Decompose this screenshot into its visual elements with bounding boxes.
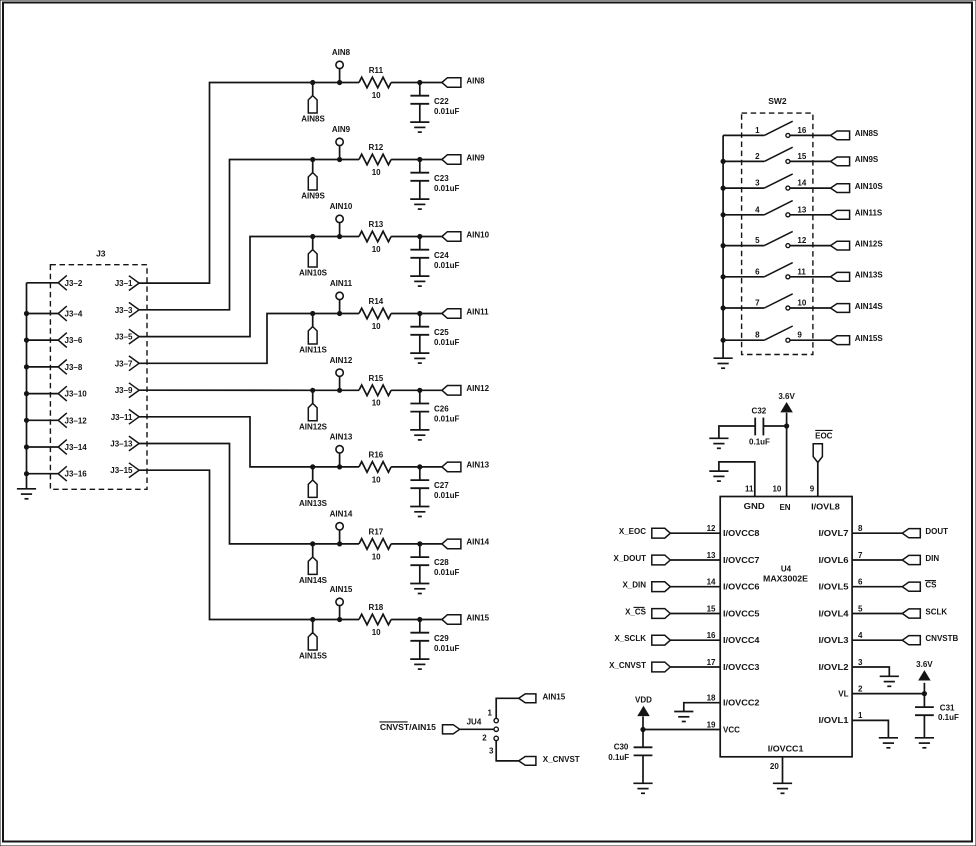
junction (418, 311, 422, 315)
svg-text:VCC: VCC (723, 725, 740, 734)
test point AIN14 (330, 510, 353, 544)
port AIN13 (442, 461, 490, 472)
wire (340, 236, 359, 238)
port AIN11 (442, 307, 489, 318)
svg-text:19: 19 (707, 720, 716, 729)
J3 pin J3-4 (27, 306, 83, 321)
svg-text:J3–3: J3–3 (115, 306, 133, 315)
svg-text:16: 16 (707, 631, 716, 640)
capacitor C31 (915, 694, 959, 738)
junction (24, 418, 28, 422)
svg-text:2: 2 (858, 684, 863, 693)
junction (311, 617, 315, 621)
port SCLK (902, 607, 947, 618)
svg-text:10: 10 (372, 91, 381, 100)
svg-text:0.1uF: 0.1uF (749, 437, 770, 446)
wire (313, 389, 340, 391)
svg-text:VDD: VDD (635, 696, 652, 705)
wire (340, 466, 359, 468)
wire (391, 313, 442, 315)
svg-text:I/OVCC3: I/OVCC3 (723, 663, 760, 672)
U4 pin 3 I/OVL2 (819, 658, 864, 672)
J3 ground bus wire (26, 283, 28, 489)
U4 pin 5 I/OVL4 (819, 604, 864, 618)
svg-text:AIN11S: AIN11S (299, 346, 327, 355)
wire (391, 236, 442, 238)
ground (410, 584, 429, 594)
junction (721, 338, 725, 342)
junction (24, 338, 28, 342)
wire (670, 559, 720, 561)
wire (670, 532, 720, 534)
junction (338, 542, 342, 546)
svg-text:I/OVCC4: I/OVCC4 (723, 636, 760, 645)
wire (670, 666, 720, 668)
J3 pin J3-10 (27, 386, 88, 401)
J3 pin J3-1 (115, 276, 139, 291)
svg-text:AIN10: AIN10 (330, 202, 353, 211)
J3 pin J3-12 (27, 413, 88, 428)
ground (410, 353, 429, 363)
wire (313, 619, 340, 621)
svg-text:10: 10 (372, 322, 381, 331)
resistor R18 (359, 603, 391, 637)
jumper JU4 (467, 709, 499, 756)
svg-text:X_EOC: X_EOC (619, 527, 646, 536)
svg-text:0.01uF: 0.01uF (434, 415, 459, 424)
U4 pin 19 VCC (707, 720, 741, 734)
wire (391, 82, 442, 84)
svg-text:10: 10 (372, 552, 381, 561)
ground (410, 122, 429, 132)
switch SW2 position 3-14 (723, 174, 807, 190)
svg-text:R14: R14 (369, 297, 384, 306)
svg-text:R12: R12 (369, 143, 384, 152)
svg-text:CNVSTB: CNVSTB (925, 634, 958, 643)
U4 pin 20 I/OVCC1 (768, 745, 804, 784)
wire pin3 to ground (852, 667, 889, 676)
port AIN15 (442, 613, 490, 624)
wire (340, 82, 359, 84)
junction (338, 465, 342, 469)
capacitor C28 (410, 544, 459, 584)
svg-text:3: 3 (858, 658, 863, 667)
svg-text:10: 10 (772, 485, 781, 494)
port AIN8S (831, 129, 879, 140)
svg-text:10: 10 (372, 168, 381, 177)
U4 pin 7 I/OVL6 (819, 551, 864, 565)
ground (879, 738, 898, 748)
svg-text:0.01uF: 0.01uF (434, 338, 459, 347)
SW2 bus wire (722, 135, 724, 358)
svg-text:J3–14: J3–14 (65, 443, 88, 452)
wire J3 to AIN8 stage (139, 83, 313, 284)
svg-text:10: 10 (372, 475, 381, 484)
port AIN15 (519, 692, 566, 702)
svg-text:AIN14S: AIN14S (855, 302, 884, 311)
svg-text:AIN14: AIN14 (330, 510, 353, 519)
wire (790, 339, 831, 341)
J3 pin J3-16 (27, 466, 88, 481)
svg-text:13: 13 (797, 205, 806, 214)
ground (410, 659, 429, 669)
svg-text:SCLK: SCLK (925, 607, 947, 616)
test point AIN9 (332, 125, 351, 159)
wire (790, 214, 831, 216)
junction (24, 392, 28, 396)
svg-text:AIN9: AIN9 (466, 153, 485, 162)
svg-text:5: 5 (858, 604, 863, 613)
svg-text:J3–5: J3–5 (115, 333, 133, 342)
svg-text:AIN9: AIN9 (332, 125, 351, 134)
svg-text:14: 14 (797, 179, 806, 188)
port AIN11S (831, 209, 883, 220)
svg-text:AIN8: AIN8 (466, 76, 485, 85)
U4 pin 12 I/OVCC8 (707, 524, 761, 538)
svg-text:C22: C22 (434, 97, 449, 106)
resistor R12 (359, 143, 391, 177)
svg-text:I/OVL8: I/OVL8 (811, 503, 840, 512)
junction (311, 234, 315, 238)
wire (852, 613, 902, 615)
wire (313, 236, 340, 238)
svg-text:12: 12 (797, 236, 806, 245)
junction (24, 472, 28, 476)
svg-text:AIN15S: AIN15S (299, 652, 328, 661)
svg-text:AIN12S: AIN12S (855, 239, 884, 248)
svg-text:J3–10: J3–10 (65, 390, 88, 399)
svg-text:AIN8: AIN8 (332, 48, 351, 57)
svg-text:GND: GND (744, 502, 765, 511)
svg-text:9: 9 (810, 485, 815, 494)
svg-text:AIN14S: AIN14S (299, 576, 328, 585)
svg-text:MAX3002E: MAX3002E (763, 575, 809, 584)
capacitor C24 (410, 237, 459, 277)
svg-text:3: 3 (755, 179, 760, 188)
svg-text:AIN15S: AIN15S (855, 334, 884, 343)
junction (418, 80, 422, 84)
svg-text:AIN9S: AIN9S (301, 192, 325, 201)
junction (338, 80, 342, 84)
svg-text:I/OVCC5: I/OVCC5 (723, 609, 760, 618)
svg-text:13: 13 (707, 551, 716, 560)
port AIN10 (442, 230, 490, 241)
svg-text:I/OVCC6: I/OVCC6 (723, 583, 760, 592)
port CNVST/AIN15 (379, 722, 459, 734)
wire (391, 159, 442, 161)
switch SW2 position 6-11 (723, 263, 806, 279)
wire (313, 543, 340, 545)
junction (311, 388, 315, 392)
port AIN8 (442, 76, 485, 87)
svg-text:J3–1: J3–1 (115, 279, 133, 288)
svg-text:I/OVL4: I/OVL4 (819, 609, 850, 618)
svg-text:C27: C27 (434, 481, 449, 490)
svg-text:10: 10 (372, 628, 381, 637)
J3 pin J3-3 (115, 302, 139, 317)
resistor R14 (359, 297, 391, 331)
wire (313, 313, 340, 315)
switch SW2 position 7-10 (723, 294, 807, 310)
resistor R13 (359, 220, 391, 254)
ground (709, 471, 728, 481)
svg-text:R15: R15 (369, 374, 384, 383)
port AIN15S (831, 334, 884, 345)
junction (338, 388, 342, 392)
junction (641, 727, 645, 731)
wire (340, 389, 359, 391)
junction (418, 388, 422, 392)
junction (721, 306, 725, 310)
net flag AIN10S (299, 237, 328, 278)
svg-text:1: 1 (488, 709, 493, 718)
power VDD (635, 696, 652, 730)
svg-text:I/OVL5: I/OVL5 (819, 583, 850, 592)
svg-text:J3–2: J3–2 (65, 279, 83, 288)
svg-text:12: 12 (707, 524, 716, 533)
port AIN14S (831, 302, 884, 313)
svg-text:14: 14 (707, 578, 716, 587)
junction (24, 365, 28, 369)
svg-text:R11: R11 (369, 66, 384, 75)
switch SW2 position 2-15 (723, 147, 807, 163)
port X_EOC (619, 527, 670, 538)
svg-text:8: 8 (755, 331, 760, 340)
svg-text:J3–11: J3–11 (111, 413, 133, 422)
capacitor C32 (719, 407, 787, 447)
svg-text:X_CS: X_CS (625, 607, 647, 616)
svg-text:C25: C25 (434, 328, 449, 337)
U4 pin 10 EN (772, 413, 790, 512)
ground (410, 276, 429, 286)
net flag AIN15S (299, 620, 328, 661)
port CNVSTB (902, 634, 958, 645)
svg-text:4: 4 (858, 631, 863, 640)
svg-text:I/OVL3: I/OVL3 (819, 636, 850, 645)
J3 pin J3-8 (27, 360, 83, 375)
svg-text:10: 10 (797, 299, 806, 308)
net flag AIN13S (299, 467, 328, 508)
wire JU4 pin1 to AIN15 (496, 698, 519, 718)
svg-text:9: 9 (797, 331, 802, 340)
switch SW2 position 8-9 (723, 326, 802, 342)
wire J3 to AIN11 stage (139, 314, 313, 364)
svg-text:AIN14: AIN14 (466, 538, 489, 547)
junction (418, 157, 422, 161)
resistor R17 (359, 527, 391, 561)
svg-text:I/OVL2: I/OVL2 (819, 663, 850, 672)
ground (773, 783, 792, 793)
wire JU4 pin3 to X_CNVST (496, 741, 519, 761)
svg-text:3: 3 (489, 746, 494, 755)
junction (311, 311, 315, 315)
power 3.6V (778, 392, 795, 412)
capacitor C22 (410, 83, 459, 123)
port AIN14 (442, 538, 490, 549)
capacitor C29 (410, 620, 459, 660)
svg-text:C30: C30 (614, 743, 629, 752)
svg-text:I/OVL6: I/OVL6 (819, 556, 850, 565)
svg-text:R18: R18 (369, 603, 384, 612)
U4 pin 11 GND (719, 462, 765, 511)
ground (410, 199, 429, 209)
wire (790, 276, 831, 278)
junction (24, 445, 28, 449)
svg-text:0.01uF: 0.01uF (434, 568, 459, 577)
wire (313, 159, 340, 161)
svg-text:AIN15: AIN15 (466, 613, 489, 622)
capacitor C23 (410, 160, 459, 200)
wire (340, 159, 359, 161)
net flag EOC (813, 430, 832, 462)
svg-text:3.6V: 3.6V (778, 392, 795, 401)
wire J3 to AIN15 stage (139, 470, 313, 619)
svg-text:CNVST/AIN15: CNVST/AIN15 (380, 723, 437, 732)
svg-text:AIN10S: AIN10S (855, 182, 884, 191)
wire (670, 613, 720, 615)
U4 pin 2 VL (838, 684, 863, 698)
switch SW2 position 5-12 (723, 231, 807, 247)
wire pin2 VL (852, 693, 924, 695)
U4 pin 14 I/OVCC6 (707, 578, 761, 592)
svg-text:J3–4: J3–4 (65, 310, 83, 319)
svg-text:AIN15: AIN15 (330, 585, 353, 594)
power 3.6V (916, 660, 933, 694)
U4 pin 13 I/OVCC7 (707, 551, 761, 565)
svg-text:11: 11 (797, 267, 806, 276)
junction (311, 542, 315, 546)
wire pin19 VCC (643, 729, 720, 731)
svg-text:10: 10 (372, 399, 381, 408)
port X_CNVST (609, 661, 670, 672)
U4 pin 15 I/OVCC5 (707, 604, 761, 618)
port AIN10S (831, 182, 884, 193)
capacitor C26 (410, 390, 459, 430)
wire (852, 586, 902, 588)
svg-text:I/OVCC1: I/OVCC1 (768, 745, 804, 754)
svg-text:X_CNVST: X_CNVST (609, 661, 646, 670)
svg-text:AIN10: AIN10 (466, 230, 489, 239)
wire J3 to AIN9 stage (139, 160, 313, 310)
svg-text:I/OVL7: I/OVL7 (819, 529, 850, 538)
wire (340, 619, 359, 621)
J3 pin J3-13 (110, 436, 139, 451)
svg-text:I/OVCC2: I/OVCC2 (723, 699, 760, 708)
ground (17, 489, 36, 499)
svg-text:J3–7: J3–7 (115, 359, 133, 368)
test point AIN11 (330, 279, 353, 313)
junction (338, 617, 342, 621)
svg-text:CS: CS (925, 581, 937, 590)
svg-text:EN: EN (779, 503, 790, 512)
svg-text:0.01uF: 0.01uF (434, 107, 459, 116)
test point AIN10 (330, 202, 353, 236)
resistor R16 (359, 450, 391, 484)
junction (311, 465, 315, 469)
junction (418, 617, 422, 621)
svg-text:AIN9S: AIN9S (855, 155, 879, 164)
wire (340, 543, 359, 545)
U4 pin 16 I/OVCC4 (707, 631, 761, 645)
wire (313, 466, 340, 468)
svg-text:J3–15: J3–15 (110, 466, 133, 475)
svg-text:J3–13: J3–13 (110, 440, 133, 449)
svg-text:X_CNVST: X_CNVST (543, 755, 580, 764)
svg-text:AIN13S: AIN13S (855, 271, 884, 280)
test point AIN8 (332, 48, 351, 82)
svg-text:R13: R13 (369, 220, 384, 229)
svg-text:X_SCLK: X_SCLK (614, 634, 646, 643)
svg-text:SW2: SW2 (768, 96, 787, 106)
J3 pin J3-14 (27, 440, 88, 455)
svg-text:0.01uF: 0.01uF (434, 261, 459, 270)
svg-text:2: 2 (482, 734, 487, 743)
svg-text:0.01uF: 0.01uF (434, 184, 459, 193)
U4 pin 18 I/OVCC2 (707, 694, 761, 708)
svg-text:5: 5 (755, 236, 760, 245)
svg-text:7: 7 (755, 299, 760, 308)
wire (852, 532, 902, 534)
port CS (902, 581, 937, 592)
wire J3 to AIN12 stage (139, 389, 313, 391)
port AIN9S (831, 155, 879, 166)
svg-text:AIN15: AIN15 (543, 692, 566, 701)
U4 pin 17 I/OVCC3 (707, 658, 761, 672)
ground (410, 430, 429, 440)
svg-text:C32: C32 (752, 407, 767, 416)
port X_CS (625, 607, 670, 618)
svg-text:J3–8: J3–8 (65, 363, 83, 372)
svg-text:AIN8S: AIN8S (855, 129, 879, 138)
ground (880, 676, 899, 686)
wire (790, 245, 831, 247)
capacitor C25 (410, 314, 459, 354)
net flag AIN11S (299, 314, 327, 355)
wire JU4 pin2 (460, 728, 494, 730)
net flag AIN14S (299, 544, 328, 585)
svg-text:DOUT: DOUT (925, 527, 948, 536)
svg-text:VL: VL (838, 689, 848, 698)
J3 pin J3-9 (115, 383, 139, 398)
junction (721, 244, 725, 248)
svg-text:C26: C26 (434, 405, 449, 414)
svg-text:U4: U4 (781, 565, 792, 574)
wire pin18 to ground (684, 703, 720, 712)
wire J3 to AIN13 stage (139, 417, 313, 467)
svg-text:6: 6 (755, 267, 760, 276)
wire (852, 639, 902, 641)
U4 pin 1 I/OVL1 (819, 711, 864, 725)
J3 pin J3-2 (27, 275, 83, 290)
junction (338, 234, 342, 238)
wire (391, 466, 442, 468)
U4 pin 9 I/OVL8 (810, 463, 841, 512)
resistor R15 (359, 374, 391, 408)
switch SW2 position 1-16 (723, 121, 807, 137)
net flag AIN9S (301, 160, 325, 201)
test point AIN12 (330, 356, 353, 390)
capacitor C30 (608, 730, 652, 784)
port DOUT (902, 527, 948, 538)
svg-text:AIN11: AIN11 (330, 279, 353, 288)
svg-text:I/OVCC7: I/OVCC7 (723, 556, 760, 565)
U4 pin 4 I/OVL3 (819, 631, 864, 645)
svg-text:1: 1 (755, 126, 760, 135)
svg-text:0.1uF: 0.1uF (608, 753, 629, 762)
svg-text:EOC: EOC (815, 431, 833, 440)
wire (852, 559, 902, 561)
svg-text:J3–9: J3–9 (115, 386, 133, 395)
